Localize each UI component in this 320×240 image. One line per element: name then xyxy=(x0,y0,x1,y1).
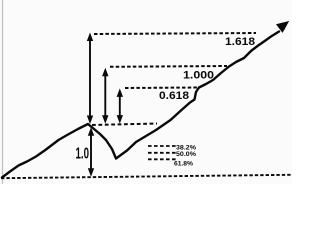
svg-text:1.000: 1.000 xyxy=(183,70,214,82)
svg-text:0.618: 0.618 xyxy=(159,90,189,102)
svg-text:50.0%: 50.0% xyxy=(176,151,196,158)
svg-text:1.0: 1.0 xyxy=(76,146,90,163)
svg-text:61.8%: 61.8% xyxy=(174,161,193,168)
svg-text:1.618: 1.618 xyxy=(225,36,255,48)
